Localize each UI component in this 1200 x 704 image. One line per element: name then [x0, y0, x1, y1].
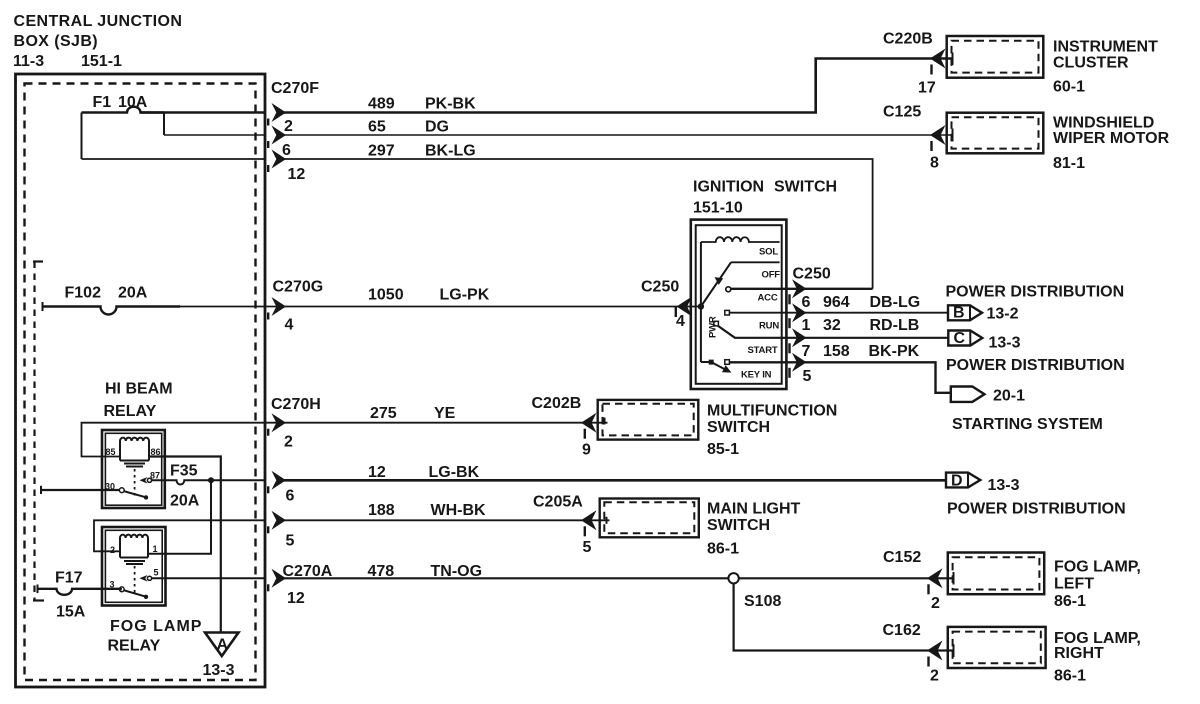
connector arrow C250 right START	[792, 328, 807, 347]
svg-text:20A: 20A	[170, 493, 200, 510]
fuse F17 15A	[38, 589, 122, 595]
svg-text:YE: YE	[434, 405, 456, 422]
svg-text:8: 8	[930, 155, 939, 172]
svg-text:9: 9	[582, 442, 591, 459]
svg-text:FOG LAMP: FOG LAMP	[110, 618, 202, 635]
svg-text:C152: C152	[883, 549, 921, 566]
connector arrow C162	[927, 641, 943, 661]
fog lamp relay coil	[120, 535, 148, 558]
fog lamp left box	[948, 553, 1044, 595]
svg-text:B: B	[953, 305, 965, 322]
svg-text:LEFT: LEFT	[1054, 576, 1094, 593]
svg-text:RD-LB: RD-LB	[870, 317, 920, 334]
wire S108 branch to fog lamp right	[734, 584, 954, 651]
svg-text:188: 188	[368, 502, 395, 519]
border arrow C270G pin 4	[272, 297, 287, 316]
svg-text:86-1: 86-1	[1054, 593, 1086, 610]
border arrow C270F pin 12	[272, 150, 287, 169]
svg-text:4: 4	[676, 313, 685, 330]
svg-text:6: 6	[802, 294, 811, 311]
svg-text:SWITCH: SWITCH	[774, 179, 837, 196]
wire 297 BK-LG to ignition switch C250	[283, 159, 873, 289]
ignition switch wiper arm	[701, 262, 731, 306]
svg-text:2: 2	[931, 595, 940, 612]
svg-text:C270A: C270A	[283, 563, 333, 580]
svg-text:964: 964	[823, 294, 850, 311]
multifunction switch box	[598, 400, 699, 440]
svg-text:32: 32	[823, 317, 841, 334]
svg-text:FOG LAMP,: FOG LAMP,	[1054, 559, 1141, 576]
hi beam relay coil	[120, 438, 149, 461]
svg-text:1050: 1050	[368, 287, 404, 304]
svg-text:20-1: 20-1	[993, 388, 1025, 405]
border arrow C270A pin 12	[272, 569, 287, 588]
svg-text:KEY IN: KEY IN	[741, 370, 772, 381]
ground reference triangle A 13-3	[205, 633, 239, 657]
connector arrow C250 right KEY IN	[792, 353, 807, 372]
wire 489 PK-BK to instrument cluster	[283, 59, 953, 113]
connector arrow C202B	[581, 413, 597, 433]
wire 12 LG-BK to pentagon D	[283, 479, 947, 482]
svg-text:13-3: 13-3	[988, 477, 1020, 494]
svg-text:CENTRAL JUNCTION: CENTRAL JUNCTION	[14, 13, 183, 30]
svg-text:65: 65	[368, 119, 386, 136]
svg-text:13-3: 13-3	[989, 335, 1021, 352]
svg-text:POWER DISTRIBUTION: POWER DISTRIBUTION	[946, 357, 1125, 374]
border arrow C270H pin 5	[272, 511, 287, 530]
off-page pentagon D 13-3	[946, 473, 980, 488]
central junction box SJB inner dashed border	[25, 84, 256, 681]
wire 478 TN-OG to splice S108 and fog lamp left	[283, 577, 954, 579]
svg-text:F17: F17	[55, 570, 83, 587]
svg-text:CLUSTER: CLUSTER	[1053, 55, 1129, 72]
svg-text:TN-OG: TN-OG	[431, 563, 483, 580]
svg-text:158: 158	[823, 343, 850, 360]
svg-text:F35: F35	[170, 463, 198, 480]
fuse F102 20A lead tick	[42, 302, 44, 311]
svg-text:C202B: C202B	[532, 395, 582, 412]
svg-text:DG: DG	[425, 119, 449, 136]
svg-text:C205A: C205A	[533, 493, 583, 510]
svg-text:60-1: 60-1	[1053, 79, 1085, 96]
svg-text:D: D	[951, 472, 963, 489]
svg-text:C250: C250	[641, 279, 679, 296]
svg-text:489: 489	[368, 96, 395, 113]
svg-text:5: 5	[154, 568, 159, 578]
border arrow C270H pin 2	[272, 413, 287, 432]
svg-text:WINDSHIELD: WINDSHIELD	[1053, 115, 1154, 132]
svg-text:ACC: ACC	[758, 293, 778, 304]
svg-text:POWER DISTRIBUTION: POWER DISTRIBUTION	[947, 501, 1126, 518]
ignition switch box	[691, 220, 787, 389]
svg-text:151-10: 151-10	[693, 200, 743, 217]
svg-text:C270F: C270F	[271, 80, 319, 97]
svg-text:12: 12	[368, 464, 386, 481]
svg-text:BOX (SJB): BOX (SJB)	[14, 33, 99, 50]
svg-text:RUN: RUN	[759, 321, 779, 332]
ignition switch START contact and wire 32	[714, 321, 719, 326]
svg-text:12: 12	[288, 166, 306, 183]
wire hi beam coil 86 to ground A	[149, 457, 221, 633]
svg-text:4: 4	[285, 317, 294, 334]
border arrow C270H pin 6	[272, 471, 287, 490]
svg-text:5: 5	[803, 368, 812, 385]
svg-text:START: START	[748, 345, 778, 356]
svg-text:F1: F1	[93, 94, 112, 111]
wire 1050 LG-PK to ignition switch	[117, 306, 701, 308]
svg-text:85-1: 85-1	[707, 441, 739, 458]
svg-text:13-2: 13-2	[987, 306, 1019, 323]
svg-text:PK-BK: PK-BK	[425, 96, 476, 113]
svg-text:DB-LG: DB-LG	[870, 294, 921, 311]
fog lamp right box	[948, 627, 1046, 668]
wire 65 DG to windshield wiper motor	[283, 134, 953, 136]
svg-text:SOL: SOL	[759, 247, 778, 258]
instrument cluster box	[947, 36, 1044, 78]
border arrow C270F pin 2	[272, 103, 287, 122]
off-page pentagon C 13-3	[948, 331, 982, 346]
svg-text:RIGHT: RIGHT	[1054, 645, 1104, 662]
svg-text:RELAY: RELAY	[104, 403, 157, 420]
svg-text:C270G: C270G	[273, 279, 324, 296]
junction dot F35 to fog relay coil	[208, 477, 214, 483]
wire 489 PK-BK row inside SJB	[141, 111, 267, 114]
off-page pentagon 20-1 starting system	[951, 387, 985, 402]
svg-text:STARTING SYSTEM: STARTING SYSTEM	[952, 416, 1103, 433]
svg-text:7: 7	[802, 343, 811, 360]
wire junction vertical to 65 DG	[163, 113, 165, 136]
svg-text:1: 1	[802, 317, 811, 334]
svg-text:86-1: 86-1	[1054, 668, 1086, 685]
svg-text:BK-LG: BK-LG	[425, 143, 476, 160]
ignition switch RUN contact and wire 964	[725, 310, 730, 315]
hi beam relay contact 30 and blade	[119, 488, 124, 493]
SJB inner dashed bus bracket	[33, 260, 43, 262]
svg-text:12: 12	[287, 590, 305, 607]
svg-text:5: 5	[583, 539, 592, 556]
svg-text:C: C	[954, 330, 966, 347]
svg-text:PWR: PWR	[708, 316, 719, 338]
svg-text:478: 478	[368, 563, 395, 580]
svg-text:297: 297	[368, 143, 395, 160]
off-page pentagon B 13-2	[948, 305, 982, 320]
svg-text:17: 17	[918, 80, 936, 97]
fog lamp relay contact 5	[140, 575, 148, 582]
svg-text:MULTIFUNCTION: MULTIFUNCTION	[707, 403, 837, 420]
splice S108	[728, 573, 738, 583]
svg-text:C270H: C270H	[271, 396, 321, 413]
ignition switch PWR bus line	[700, 242, 702, 362]
svg-text:2: 2	[110, 545, 115, 555]
ignition switch solenoid coil line SOL	[701, 237, 780, 242]
svg-text:MAIN LIGHT: MAIN LIGHT	[707, 500, 801, 517]
ignition switch pivot dot	[698, 303, 704, 309]
svg-text:C220B: C220B	[883, 31, 933, 48]
svg-text:5: 5	[286, 533, 295, 550]
svg-text:C162: C162	[883, 622, 921, 639]
wire 65 DG inside SJB	[164, 134, 266, 136]
hi beam relay contact 87	[140, 477, 148, 484]
svg-text:1: 1	[153, 544, 158, 554]
svg-text:C250: C250	[793, 266, 831, 283]
svg-text:86-1: 86-1	[707, 541, 739, 558]
fuse F102 20A	[43, 307, 181, 315]
fuse F1 10A	[82, 107, 165, 113]
ignition switch KEY IN wire 158	[729, 362, 951, 393]
wire 275 YE from hi beam relay coil	[82, 423, 608, 457]
svg-text:20A: 20A	[118, 285, 148, 302]
main light switch box	[600, 499, 699, 538]
svg-text:IGNITION: IGNITION	[693, 179, 764, 196]
wire 188 WH-BK from fog relay coil 2	[94, 520, 266, 551]
svg-text:151-1: 151-1	[81, 53, 122, 70]
svg-text:SWITCH: SWITCH	[707, 517, 770, 534]
svg-text:WH-BK: WH-BK	[431, 502, 487, 519]
fog lamp relay box	[102, 527, 166, 606]
fog lamp relay actuator dotted line	[134, 566, 136, 594]
svg-text:3: 3	[110, 580, 115, 590]
svg-text:C125: C125	[883, 104, 921, 121]
border arrow C270F pin 6	[272, 126, 287, 145]
wire 478 TN-OG from fog relay 5	[152, 577, 267, 579]
svg-text:BK-PK: BK-PK	[869, 343, 920, 360]
wire 297 BK-LG inside SJB	[82, 158, 267, 160]
connector arrow C220B	[930, 49, 946, 69]
svg-text:86: 86	[151, 447, 161, 457]
connector arrow C205A	[581, 510, 597, 530]
svg-text:RELAY: RELAY	[108, 638, 161, 655]
svg-text:6: 6	[286, 488, 295, 505]
svg-text:S108: S108	[744, 593, 781, 610]
svg-text:6: 6	[282, 142, 291, 159]
connector arrow C250 right ACC	[792, 279, 807, 298]
svg-text:INSTRUMENT: INSTRUMENT	[1053, 39, 1158, 56]
ignition switch ACC contact and wire	[726, 287, 731, 292]
windshield wiper motor box	[947, 113, 1044, 154]
wire hi beam relay 30 feed	[40, 486, 42, 494]
svg-text:2: 2	[930, 668, 939, 685]
fog lamp relay contact 3 and blade	[119, 587, 124, 592]
svg-text:LG-PK: LG-PK	[440, 287, 490, 304]
connector arrow C250 right RUN	[792, 303, 807, 322]
connector arrow C250 left	[677, 297, 693, 317]
svg-text:A: A	[217, 637, 229, 654]
connector arrow C125	[930, 125, 946, 145]
ignition switch OFF line	[731, 261, 780, 263]
svg-text:13-3: 13-3	[203, 662, 235, 679]
ignition switch KEY IN switch	[701, 361, 709, 363]
svg-text:HI BEAM: HI BEAM	[105, 381, 173, 398]
fuse F35 20A	[152, 480, 267, 484]
hi beam relay box	[102, 430, 165, 508]
connector arrow C152	[927, 568, 943, 588]
central junction box SJB outer border	[16, 74, 266, 687]
svg-text:10A: 10A	[118, 94, 148, 111]
hi beam relay actuator dotted line	[134, 469, 136, 497]
svg-text:SWITCH: SWITCH	[707, 419, 770, 436]
svg-text:2: 2	[284, 434, 293, 451]
svg-text:OFF: OFF	[762, 270, 781, 281]
svg-text:30: 30	[105, 482, 115, 492]
svg-text:87: 87	[150, 471, 160, 481]
wire fog relay coil 1 feed	[148, 480, 211, 554]
svg-text:85: 85	[106, 447, 116, 457]
connector pin ticks	[268, 65, 931, 667]
fuse F17 15A lead tick	[37, 585, 39, 594]
wire: SJB internal feed vertical to F1 and 297	[81, 113, 83, 160]
svg-text:275: 275	[370, 405, 397, 422]
svg-text:WIPER MOTOR: WIPER MOTOR	[1053, 130, 1170, 147]
svg-text:F102: F102	[65, 285, 102, 302]
svg-text:POWER DISTRIBUTION: POWER DISTRIBUTION	[946, 284, 1125, 301]
svg-text:2: 2	[284, 118, 293, 135]
svg-text:15A: 15A	[56, 604, 86, 621]
svg-text:81-1: 81-1	[1053, 155, 1085, 172]
svg-text:11-3: 11-3	[13, 53, 44, 70]
svg-text:LG-BK: LG-BK	[429, 464, 480, 481]
